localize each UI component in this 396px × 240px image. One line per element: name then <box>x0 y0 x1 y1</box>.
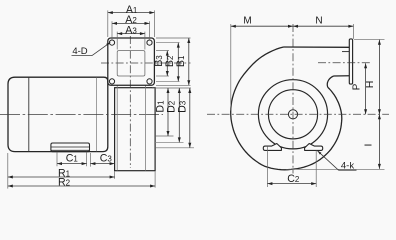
svg-text:C1: C1 <box>66 153 79 165</box>
svg-text:R2: R2 <box>58 176 71 188</box>
svg-text:I: I <box>363 144 375 147</box>
svg-text:N: N <box>315 15 322 26</box>
svg-text:D1: D1 <box>154 100 166 113</box>
svg-text:C2: C2 <box>287 173 300 185</box>
svg-text:D3: D3 <box>176 100 188 113</box>
svg-text:M: M <box>243 15 251 26</box>
svg-text:C3: C3 <box>100 153 113 165</box>
svg-text:4-k: 4-k <box>341 161 354 172</box>
svg-text:P: P <box>351 83 362 90</box>
svg-text:B1: B1 <box>175 55 187 67</box>
svg-text:A3: A3 <box>125 24 137 36</box>
svg-text:4-D: 4-D <box>72 46 87 57</box>
